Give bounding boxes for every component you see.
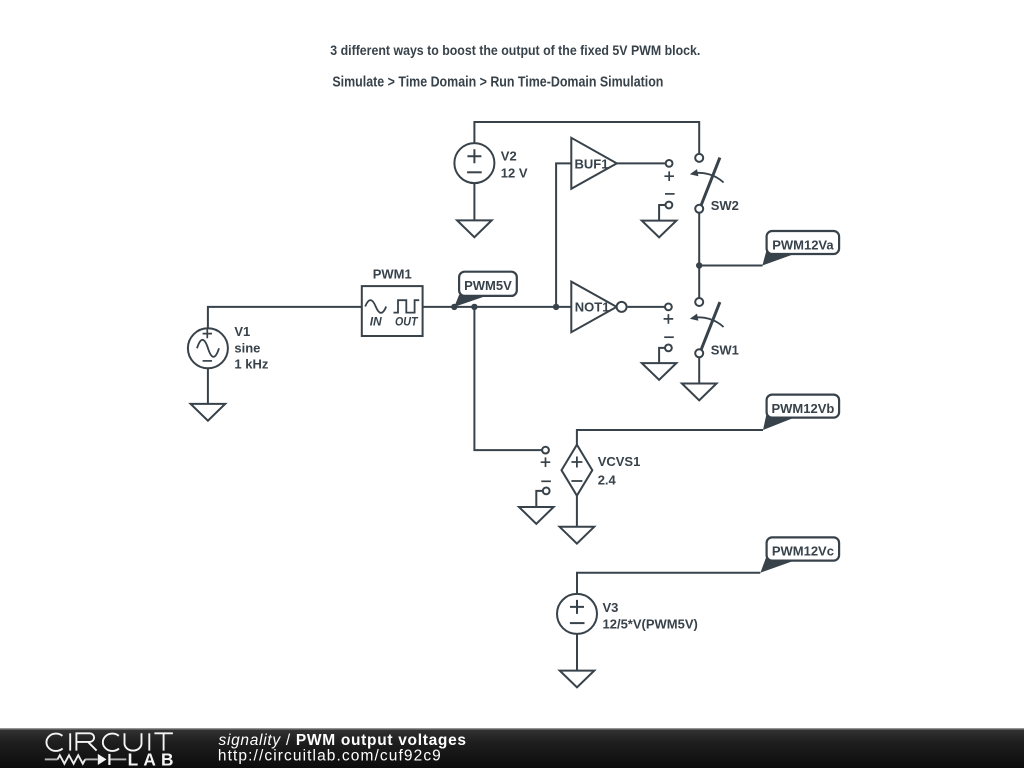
junction node at PWM5V flag (451, 304, 457, 310)
wire VCVS1 bottom to ground (576, 496, 578, 527)
svg-text:sine: sine (234, 340, 260, 355)
net flag PWM12Vc (760, 537, 839, 572)
svg-text:V3: V3 (603, 600, 619, 615)
wire PWM1 output to NOT1 input (423, 306, 572, 308)
svg-text:Simulate > Time Domain > Run T: Simulate > Time Domain > Run Time-Domain… (332, 74, 663, 90)
junction node to VCVS1 branch (471, 304, 477, 310)
svg-text:OUT: OUT (395, 314, 419, 328)
junction node PWM12Va (696, 262, 702, 268)
label V2 12 V (501, 148, 528, 180)
svg-text:signality / PWM output voltage: signality / PWM output voltages (219, 732, 467, 749)
wire BUF1 output (617, 162, 666, 164)
PWM block PWM1 (362, 286, 423, 336)
svg-text:2.4: 2.4 (598, 473, 617, 488)
svg-text:SW2: SW2 (711, 198, 739, 213)
ground below SW1 (682, 384, 717, 401)
wire V2 top rail to SW2 (474, 122, 699, 154)
svg-text:VCVS1: VCVS1 (598, 454, 641, 469)
svg-text:V2: V2 (501, 148, 517, 163)
ground below VCVS1 (560, 527, 595, 544)
ground below V3 (560, 671, 595, 688)
BUF1 control terminal (664, 160, 674, 208)
ground below VCVS1 control (519, 507, 554, 524)
wire BUF1 control minus to ground (659, 205, 666, 221)
svg-text:NOT1: NOT1 (575, 300, 610, 315)
inverter NOT1 (571, 282, 626, 333)
wire V3 top to PWM12Vc (577, 573, 760, 594)
svg-text:PWM1: PWM1 (373, 267, 412, 282)
ground below NOT1 control (642, 363, 677, 380)
label VCVS1 2.4 (598, 454, 641, 487)
svg-text:PWM12Va: PWM12Va (772, 237, 834, 252)
label V1 sine 1 kHz (234, 324, 268, 371)
ground below V2 (457, 220, 492, 237)
logo resistor-diode symbol (45, 754, 127, 765)
vcvs VCVS1 (562, 445, 593, 496)
switch SW2 (690, 154, 724, 213)
wire VCVS1 top to PWM12Vb (577, 430, 763, 445)
svg-text:http://circuitlab.com/cuf92c9: http://circuitlab.com/cuf92c9 (218, 748, 442, 765)
wire SW2 bottom to SW1 top (698, 213, 700, 298)
voltage source V1 (188, 328, 228, 368)
wire V3 bottom to ground (576, 634, 578, 670)
buffer BUF1 (571, 138, 617, 189)
footer bar (0, 728, 1024, 768)
svg-text:V1: V1 (234, 324, 250, 339)
wire VCVS1 control minus to ground (536, 491, 543, 507)
wire V1 bottom to ground (207, 368, 209, 404)
svg-text:IN: IN (370, 314, 382, 328)
svg-text:3 different ways to boost the: 3 different ways to boost the output of … (330, 42, 700, 58)
wire node PWM12Va (699, 265, 762, 267)
wire up to BUF1 input (556, 163, 571, 307)
junction node to BUF1 branch (553, 304, 559, 310)
svg-text:PWM12Vc: PWM12Vc (772, 544, 834, 559)
svg-text:PWM5V: PWM5V (464, 278, 512, 293)
svg-text:PWM12Vb: PWM12Vb (771, 401, 834, 416)
logo CIRCUIT wordmark (46, 733, 172, 751)
svg-text:BUF1: BUF1 (575, 156, 609, 171)
svg-text:12/5*V(PWM5V): 12/5*V(PWM5V) (603, 616, 698, 631)
svg-text:1 kHz: 1 kHz (234, 356, 268, 371)
net flag PWM5V (454, 272, 517, 307)
wire NOT1 control minus to ground (659, 348, 665, 363)
label V3 12/5*V(PWM5V) (603, 600, 698, 631)
wire SW1 bottom to ground (698, 357, 700, 383)
ground below V1 (191, 404, 226, 421)
wire node PWM5V down to VCVS1 control (474, 307, 542, 450)
wire V2 bottom to ground (473, 183, 475, 220)
voltage source V3 (557, 594, 597, 634)
VCVS1 control terminal (541, 447, 551, 495)
net flag PWM12Va (762, 231, 839, 266)
svg-text:12 V: 12 V (501, 166, 528, 181)
svg-text:SW1: SW1 (711, 342, 739, 357)
ground below BUF1 control (642, 221, 677, 238)
switch SW1 (690, 298, 724, 357)
wire NOT1 output (628, 306, 665, 308)
net flag PWM12Vb (763, 395, 839, 430)
voltage source V2 (454, 143, 494, 183)
NOT1 control terminal (664, 304, 674, 352)
wire V1 top to PWM1 input (208, 307, 362, 328)
svg-text:LAB: LAB (128, 749, 179, 768)
